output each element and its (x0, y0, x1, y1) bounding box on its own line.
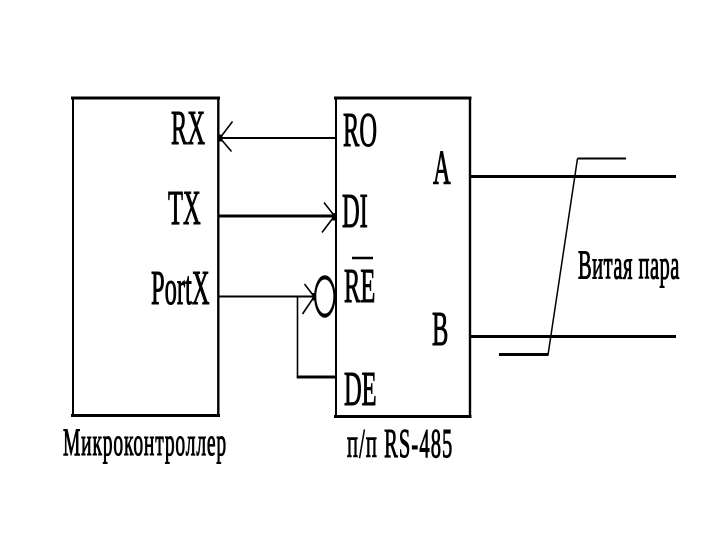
inversion bubble at RE (315, 277, 334, 315)
wire TX to DI (219, 215, 335, 218)
svg-text:Микроконтроллер: Микроконтроллер (63, 421, 227, 464)
arrowhead into RE bubble (303, 284, 317, 314)
RE overline (352, 257, 373, 260)
twisted pair upper stub (578, 158, 627, 160)
arrowhead into RX (218, 122, 233, 152)
svg-text:RE: RE (344, 259, 375, 313)
svg-text:B: B (432, 302, 448, 356)
arrowhead into DI (322, 203, 336, 233)
twisted pair diagonal (548, 159, 578, 356)
svg-text:DI: DI (342, 184, 368, 238)
RS-485 transceiver box U2 (334, 97, 472, 419)
svg-text:PortX: PortX (151, 261, 210, 315)
svg-text:Витая пара: Витая пара (578, 243, 680, 289)
wire to DE (297, 376, 336, 379)
wire RO to RX (219, 137, 336, 139)
twisted pair lower stub (499, 353, 549, 356)
svg-text:п/п RS-485: п/п RS-485 (347, 422, 453, 468)
svg-text:A: A (433, 140, 451, 194)
svg-text:DE: DE (344, 362, 377, 416)
wire A line (470, 175, 676, 178)
svg-text:RO: RO (343, 103, 377, 157)
svg-text:TX: TX (168, 181, 201, 235)
wire branch down from PortX node (297, 297, 299, 378)
wire B line (470, 335, 676, 338)
svg-text:RX: RX (171, 101, 205, 155)
microcontroller box U1 (71, 97, 220, 418)
wire PortX to RE (219, 296, 313, 298)
